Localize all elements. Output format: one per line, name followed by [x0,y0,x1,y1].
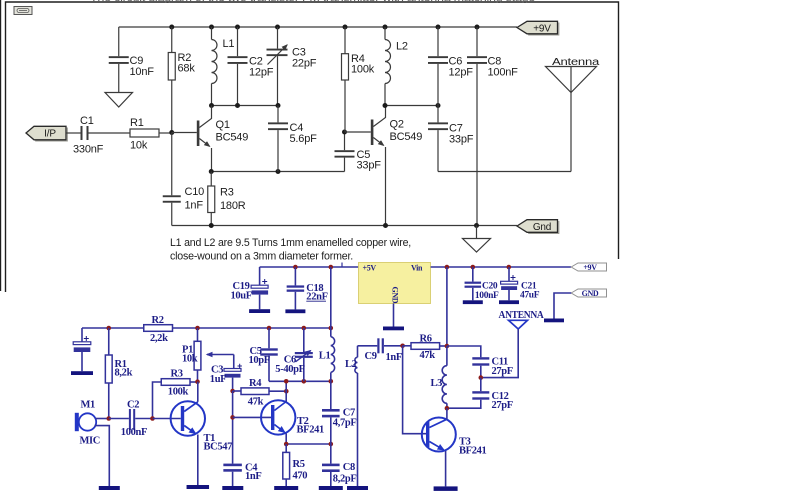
svg-text:R3: R3 [171,368,183,379]
capacitor C10 [163,133,181,226]
svg-text:close-wound on a 3mm diameter: close-wound on a 3mm diameter former. [170,251,353,263]
ground bar GND tag [544,319,564,323]
note text line 2 [170,251,353,263]
svg-text:M1: M1 [81,400,96,411]
svg-text:12pF: 12pF [449,67,474,79]
label R2 value [178,52,196,75]
label T2 [297,416,325,436]
resistor R2 bottom [144,325,173,332]
svg-text:L3: L3 [431,378,443,389]
svg-text:+9V: +9V [533,23,551,34]
note text line 1 [170,237,411,249]
label C5 value [357,149,382,172]
junction R1 base node [169,130,174,135]
transistor T1 [153,382,206,485]
wire regulator GND pin [393,303,395,326]
label C1 value [73,115,104,156]
label C10 value [185,186,205,212]
svg-text:C20: C20 [482,282,498,292]
svg-text:10pF: 10pF [249,355,270,366]
svg-text:R3: R3 [220,187,234,199]
capacitor C9 [109,27,129,93]
resistor R3 [208,172,215,226]
svg-text:The circuit diagram of the two: The circuit diagram of the two transisto… [90,0,535,3]
ground bar mic [99,486,120,490]
capacitor C9 bottom [358,338,403,353]
ground bar R5 [274,486,298,490]
svg-text:MIC: MIC [80,436,101,447]
svg-text:4,7pF: 4,7pF [333,417,357,428]
antenna symbol bottom [509,320,528,329]
label C21 value [520,282,540,301]
capacitor C12 [447,378,489,409]
svg-text:+9V: +9V [583,263,597,272]
wire tank top link [447,346,481,357]
capacitor C3 electrolytic [224,364,242,391]
junction rail C8 [475,25,480,30]
capacitor C7 [428,106,448,172]
label L1 bottom [319,350,331,361]
wire 9V to tank [446,267,448,346]
frame box of top schematic [6,2,619,292]
wire oscillator node [269,380,331,382]
ground bar C21 [499,300,519,304]
svg-text:47k: 47k [248,397,264,408]
junction R3 ground [209,223,214,228]
svg-text:5-40pF: 5-40pF [275,364,304,375]
svg-text:10k: 10k [182,353,198,364]
svg-text:10uF: 10uF [231,290,252,301]
junction C2 bottom [235,103,240,108]
trimmer capacitor C3 [267,27,288,106]
svg-text:BC549: BC549 [390,131,423,143]
label P1 value [182,345,198,365]
svg-text:+5V: +5V [363,264,377,273]
clipped title text at top edge [90,0,535,3]
junction 9V C20 [471,265,476,270]
junction C9 R6 T3 [400,344,405,349]
svg-text:L1: L1 [223,38,235,50]
capacitor C11 [472,357,489,377]
battery B1 [73,328,91,371]
capacitor C5 bottom [260,328,278,381]
svg-text:2,2k: 2,2k [150,333,168,344]
svg-text:100nF: 100nF [475,291,499,301]
label C8 bottom value [333,462,357,485]
capacitor C18 [287,267,305,309]
svg-text:68k: 68k [178,63,196,75]
label C5 bottom value [249,346,270,366]
label C8 value [488,56,519,79]
junction rail P1 top [195,326,200,331]
junction mic R1 [106,416,111,421]
wire +5V rail [260,266,359,268]
junction C11 C12 antenna [479,375,484,380]
label C9 bottom value [365,351,402,363]
label Q2 [390,119,423,144]
junction Q2 base node [342,130,347,135]
svg-text:BF241: BF241 [459,445,487,456]
label C6 value [449,56,474,79]
wire bias rail right [173,327,331,329]
svg-text:47uF: 47uF [520,291,540,301]
junction node L1 bottom [329,379,334,384]
page border left outer [0,0,2,291]
resistor R4 [342,27,349,132]
svg-text:33pF: 33pF [449,134,474,146]
svg-text:100k: 100k [351,64,375,76]
svg-text:1nF: 1nF [386,352,402,363]
label L2 bottom [345,359,357,370]
svg-text:R2: R2 [152,315,164,326]
ground symbol C9 [105,93,133,108]
svg-text:BC547: BC547 [204,441,233,452]
label C2 bottom value [121,400,147,438]
resistor R4 bottom [233,388,287,395]
junction T2 emitter R5 [284,442,289,447]
wire C7 to antenna [438,171,571,173]
wire antenna feed [481,329,518,378]
label R1 bottom value [115,359,133,378]
svg-text:L2: L2 [396,41,408,53]
svg-text:330nF: 330nF [73,144,104,156]
power tag +9V bottom [571,263,606,272]
svg-text:100nF: 100nF [121,427,147,438]
capacitor C4 [268,106,288,172]
junction C3 C4 [276,103,281,108]
wire T3 base branch [403,346,426,434]
wire bias rail left [82,327,144,329]
svg-text:100nF: 100nF [488,67,519,79]
junction C18 top [293,265,298,270]
svg-text:1nF: 1nF [245,471,261,482]
wire GND tag to ground [554,293,571,319]
svg-text:47k: 47k [420,350,436,361]
ground bar L2 [347,486,368,490]
capacitor C8 bottom [322,444,340,486]
trimmer capacitor C6 bottom [295,328,313,381]
svg-text:C1: C1 [80,115,94,127]
capacitor C5 [335,132,355,172]
svg-text:C2: C2 [127,400,139,411]
antenna symbol top [546,57,600,172]
ground tag Gnd [517,220,559,234]
junction node C6 bottom [302,379,307,384]
svg-text:GND: GND [582,289,599,298]
junction Q2 emitter ground [383,223,388,228]
label Q1 [216,119,249,144]
svg-text:R6: R6 [420,333,432,344]
transistor T3 [422,408,456,486]
svg-text:R4: R4 [249,378,262,389]
svg-text:L1 and L2 are 9.5 Turns 1mm en: L1 and L2 are 9.5 Turns 1mm enamelled co… [170,237,411,249]
logo badge top-left [14,7,32,15]
label C2 value [249,56,274,79]
junction C7 C8 node [329,442,334,447]
transistor T2 [233,381,296,444]
voltage regulator U1 5V [359,263,431,304]
label C4 value [290,122,318,145]
junction Q1 emitter R3 [209,169,214,174]
junction 9V C21 [507,265,512,270]
label C18 value [306,283,327,303]
ground bar C8 bottom [319,486,343,490]
transistor Q1 [172,106,212,172]
capacitor C7 bottom [322,381,340,444]
resistor R2 [168,27,175,133]
junction L2 Q2 collector [383,103,388,108]
label ANTENNA [499,309,544,321]
wire tank node 2 [385,105,438,107]
label L3 [431,378,443,389]
label L2 [396,41,408,53]
ground bar C4 [222,486,243,490]
capacitor C8 [467,27,487,226]
label C19 value [231,281,252,301]
junction T2 base node [230,415,235,420]
inductor L1 [212,27,218,106]
svg-text:33pF: 33pF [357,160,382,172]
wire C4 branch [232,391,234,464]
svg-text:12pF: 12pF [249,67,274,79]
capacitor C6 [428,27,448,106]
svg-text:Gnd: Gnd [533,222,551,233]
svg-text:C9: C9 [365,351,377,362]
resistor R1 bottom [105,328,112,419]
potentiometer P1 [194,328,234,382]
junction L1 feed top [329,265,334,270]
svg-text:5.6pF: 5.6pF [290,133,318,145]
power tag +9V [517,21,559,35]
inductor L2 [385,27,391,106]
label R6 value [420,333,436,361]
svg-text:100k: 100k [168,386,189,397]
wire ground rail [172,225,517,227]
svg-text:L1: L1 [319,350,331,361]
resistor R1 [130,129,172,137]
label M1 [80,400,101,447]
resistor R5 [283,444,290,486]
capacitor C20 [465,267,482,300]
inductor L2 bottom [355,346,358,486]
junction R6 L3 top [445,344,450,349]
junction L3 T3 collector [445,406,450,411]
inductor L1 bottom [331,267,335,381]
svg-text:10k: 10k [130,140,148,152]
label C4 bottom value [245,462,261,482]
label L1 [223,38,235,50]
junction rail C6 top [302,326,307,331]
junction C2 T1 base [150,416,155,421]
junction rail R1 top [106,326,111,331]
ground bar regulator [383,327,404,331]
label R4 value [351,53,375,76]
label C12 value [492,391,513,411]
capacitor C2 [228,27,248,106]
capacitor C2 bottom [109,409,153,430]
label C6 bottom value [275,354,304,375]
label C3 bottom value [210,364,226,385]
svg-text:ANTENNA: ANTENNA [499,309,544,321]
resistor R6 [403,343,447,350]
svg-text:L2: L2 [345,359,357,370]
ground bar C20 [463,300,483,304]
label C3 value [292,47,317,70]
wire R3 branch [153,382,162,419]
svg-text:Q2: Q2 [390,119,404,131]
wire +9V rail [431,266,571,268]
svg-text:8,2k: 8,2k [115,367,133,378]
svg-text:BC549: BC549 [216,132,249,144]
svg-text:C8: C8 [343,462,355,473]
ground bar T1 emitter [187,485,210,489]
svg-text:180R: 180R [220,200,246,212]
junction C4 bottom [276,169,281,174]
label R2 bottom value [150,315,168,344]
label R3 bottom value [168,368,189,397]
junction L1 bottom [209,103,214,108]
junction C8 ground [474,223,479,228]
junction rail L1 top [329,326,334,331]
junction rail C5 top [267,326,272,331]
svg-text:27pF: 27pF [492,400,513,411]
junction rail L1 [209,25,214,30]
capacitor C4 bottom [223,464,242,486]
wire T2 emitter node [286,443,331,445]
svg-text:470: 470 [293,471,308,482]
label C9 value [130,55,155,78]
junction 9V L3 branch [445,265,450,270]
label C7 bottom value [333,408,357,429]
label R4 bottom value [248,378,264,408]
junction R4 T2 collector [284,389,289,394]
label R3 value [220,187,246,213]
junction rail R2 [169,25,174,30]
label C7 value [449,123,474,146]
capacitor C1 [66,126,130,140]
capacitor C21 electrolytic [501,267,518,300]
transistor Q2 [345,106,386,226]
capacitor C19 electrolytic [251,267,268,309]
wire +9V supply rail [119,26,517,28]
junction node T2 collector [284,379,289,384]
svg-text:1nF: 1nF [185,200,204,212]
microphone M1 [75,413,110,486]
label T3 [459,436,487,456]
svg-text:BF241: BF241 [297,424,325,435]
ground symbol main [463,226,491,253]
junction rail R4 [343,25,348,30]
junction rail C6 [436,25,441,30]
svg-text:10nF: 10nF [130,66,155,78]
wire emitter node [211,171,344,173]
junction rail C3 [275,25,280,30]
inductor L3 [442,346,447,408]
svg-text:22pF: 22pF [292,58,317,70]
ground bar C18 [285,309,305,313]
junction P1 R3 T1 collector [195,379,200,384]
label T1 [204,433,233,453]
label R5 value [293,459,308,482]
label R1 value [130,117,148,152]
input tag I/P [26,126,67,141]
svg-text:27pF: 27pF [492,366,513,377]
svg-text:8,2pF: 8,2pF [333,473,357,484]
svg-text:C10: C10 [185,186,205,198]
resistor R3 bottom [161,379,197,386]
wire tank node 1 [212,105,279,107]
junction rail L2 [383,25,388,30]
ground tag GND bottom [571,289,606,298]
svg-text:R1: R1 [130,117,144,129]
ground bar C19 [249,309,270,313]
ground bar battery [71,371,93,375]
label C20 value [475,282,499,302]
svg-text:I/P: I/P [44,129,56,140]
ground bar T3 emitter [434,486,458,491]
svg-text:Q1: Q1 [216,119,230,131]
junction C3 R4 node [230,389,235,394]
label C11 value [492,356,513,377]
junction rail C2 [235,25,240,30]
svg-text:R5: R5 [293,459,305,470]
svg-text:Vin: Vin [411,264,423,273]
junction C6 C7 [436,103,441,108]
svg-text:1uF: 1uF [210,374,226,385]
svg-text:GND: GND [391,287,400,304]
pin tick regulator input [341,263,343,268]
